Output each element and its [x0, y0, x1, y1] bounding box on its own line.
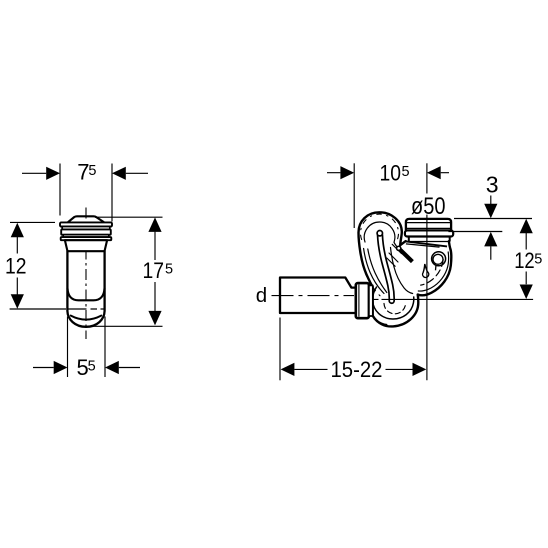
svg-text:12: 12: [514, 248, 535, 273]
trap axis centerline: [374, 298, 534, 300]
dim 12 stems: [16, 237, 18, 295]
pipe nut: [356, 283, 369, 318]
svg-text:ø50: ø50: [411, 193, 446, 220]
channel wall left of dip tube: [368, 249, 387, 293]
dim 3 down arrow: [484, 204, 497, 219]
left view cone section: [65, 240, 107, 251]
socket oblique shoulder: [406, 241, 447, 246]
dim 10.5 extension line: [353, 163, 355, 228]
socket flange: [405, 230, 453, 236]
pipe axis centerline: [272, 295, 355, 297]
svg-text:5: 5: [402, 164, 410, 180]
left view dome cap: [68, 216, 104, 222]
cleanout plug circles: [432, 252, 446, 271]
pipe nut inner line: [358, 285, 360, 317]
channel wall right of dip tube: [391, 248, 413, 294]
dim 5.5 extension lines: [68, 317, 106, 378]
dim 15-22 left arrow: [281, 363, 295, 376]
left view flange band 2: [62, 227, 110, 230]
inlet pipe: [280, 278, 373, 319]
dim 5.5 leaders: [33, 367, 140, 369]
left view dashed mid line through part: [67, 308, 104, 310]
dim 17.5 down arrow: [148, 311, 161, 326]
dim 3 up arrow: [484, 232, 497, 247]
dim 10.5 right arrow: [427, 166, 441, 179]
left view body and bottom dome: [67, 251, 104, 327]
socket inner lines: [406, 223, 450, 229]
dim 12.5 up arrow: [520, 219, 533, 234]
waist thin contour: [364, 249, 384, 294]
dim 17.5 up arrow: [148, 217, 161, 232]
dim 7.5 leaders: [22, 172, 148, 174]
lower bend inner arc: [373, 287, 414, 319]
centerlines: [272, 163, 534, 380]
dim 5.5 left arrow: [54, 361, 68, 374]
socket below-flange walls: [409, 237, 450, 242]
slot rib lower 1: [389, 253, 398, 262]
left view flange band 3: [61, 229, 111, 234]
dim 15-22 line segments: [294, 368, 412, 370]
dim 7.5 extension lines: [60, 164, 112, 222]
left view flange band 1: [60, 222, 112, 226]
trap body outline: [359, 212, 452, 326]
svg-text:3: 3: [486, 172, 499, 198]
dim 10.5 leaders: [327, 172, 449, 174]
dim 15-22 extension line: [279, 318, 281, 381]
left view inner cup bottom: [68, 289, 105, 301]
arch inner contour: [364, 222, 400, 250]
dim 3 stems: [490, 196, 492, 260]
dim 12 bottom reference line: [10, 308, 66, 310]
slot rib upper: [392, 244, 401, 253]
svg-text:17: 17: [143, 258, 165, 283]
dim 17.5 reference lines: [93, 217, 163, 326]
svg-text:5: 5: [88, 163, 96, 179]
svg-text:5: 5: [165, 261, 173, 277]
overflow slot black bar: [397, 246, 413, 261]
left view dome inner smile: [71, 316, 101, 320]
dim 12 up arrow: [11, 223, 24, 238]
slot rib lower 2: [387, 258, 395, 266]
left view centerline: [85, 208, 87, 340]
dim 12.5 stems: [525, 233, 527, 284]
dim 7.5 right arrow: [112, 167, 126, 180]
svg-text:15-22: 15-22: [331, 357, 383, 382]
svg-text:12: 12: [5, 254, 27, 279]
dip tube keyhole: [377, 231, 392, 301]
right lobe inner contour: [418, 252, 448, 291]
socket main: [406, 219, 451, 231]
dim 15-22 right arrow: [413, 363, 427, 376]
right lobe deep arc: [421, 260, 444, 286]
trap interior thin lines: [360, 214, 448, 324]
svg-text:10: 10: [380, 161, 402, 186]
tail inner contour: [375, 319, 387, 325]
dim 17.5 stems: [154, 232, 156, 312]
dim 12 top reference line: [10, 221, 55, 223]
socket: [405, 219, 453, 247]
dim 10.5 left arrow: [340, 166, 354, 179]
dim 7.5 left arrow: [46, 167, 60, 180]
pipe ring: [369, 285, 373, 316]
dim 3 reference lines: [448, 219, 532, 232]
svg-text:5: 5: [534, 251, 542, 267]
svg-text:d: d: [256, 284, 267, 307]
teardrop: [423, 264, 429, 277]
dim 12.5 down arrow: [520, 285, 533, 300]
left view flange band 4: [63, 235, 109, 237]
svg-text:5: 5: [88, 358, 96, 374]
left view flange band 5: [61, 237, 112, 240]
vertical centerline lower: [426, 215, 428, 381]
arch dash-dot contour: [360, 214, 398, 240]
dim 5.5 right arrow: [105, 361, 119, 374]
vertical centerline upper: [426, 163, 428, 193]
waist dashed contour: [361, 256, 381, 297]
dim 12 down arrow: [11, 294, 24, 309]
lower bend dashed arc: [384, 304, 405, 314]
